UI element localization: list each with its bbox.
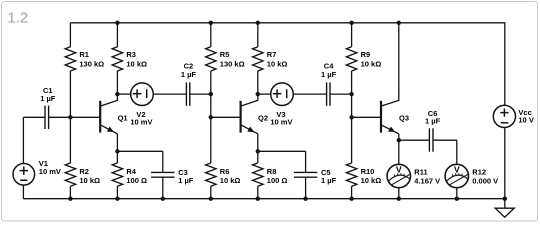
junction R11 bottom rail bbox=[397, 197, 401, 201]
capacitor C1 bbox=[44, 106, 46, 129]
junction R7 top rail bbox=[256, 21, 260, 25]
junction R4 bottom rail bbox=[115, 197, 119, 201]
wire base of Q1 bbox=[70, 116, 100, 118]
resistor R9 bbox=[351, 23, 353, 47]
svg-text:V: V bbox=[454, 164, 460, 174]
wire C1 to base node bbox=[49, 116, 71, 118]
junction coupling node Q3 base column bbox=[349, 92, 353, 96]
junction collector node Q1 bbox=[115, 92, 119, 96]
svg-text:10 mV: 10 mV bbox=[39, 167, 61, 176]
svg-text:1 µF: 1 µF bbox=[321, 176, 337, 185]
junction C5 bottom rail bbox=[303, 197, 307, 201]
junction base node Q1 bbox=[68, 115, 72, 119]
svg-text:1 µF: 1 µF bbox=[178, 176, 194, 185]
wire emitter drop Q1 bbox=[116, 134, 118, 152]
junction R12 bottom rail bbox=[455, 197, 459, 201]
wire emitter drop Q3 bbox=[398, 134, 400, 140]
resistor R6 bbox=[210, 117, 212, 163]
wire Vcc to bottom rail bbox=[504, 128, 506, 199]
svg-text:0.000 V: 0.000 V bbox=[472, 176, 498, 185]
svg-text:1 µF: 1 µF bbox=[321, 70, 337, 79]
junction emitter node Q1 bbox=[115, 149, 119, 153]
junction R2 bottom rail bbox=[68, 197, 72, 201]
svg-text:1 µF: 1 µF bbox=[181, 70, 197, 79]
capacitor C6 bbox=[428, 128, 430, 151]
junction R5 top rail bbox=[209, 21, 213, 25]
junction base node Q3 bbox=[349, 115, 353, 119]
svg-text:R4: R4 bbox=[126, 167, 136, 176]
svg-text:R11: R11 bbox=[414, 167, 427, 176]
wire C3 to bottom rail bbox=[162, 177, 164, 199]
svg-text:R8: R8 bbox=[267, 167, 277, 176]
svg-text:10 mV: 10 mV bbox=[270, 118, 292, 127]
svg-text:R10: R10 bbox=[361, 167, 375, 176]
junction coupling node Q2 base column bbox=[209, 92, 213, 96]
svg-text:10 kΩ: 10 kΩ bbox=[126, 60, 147, 69]
resistor R10 bbox=[351, 117, 353, 163]
source V2 bbox=[131, 83, 154, 106]
junction emitter node Q2 bbox=[256, 149, 260, 153]
svg-text:130 kΩ: 130 kΩ bbox=[220, 60, 245, 69]
wire collector to probe V2 bbox=[117, 93, 130, 95]
junction C3 bottom rail bbox=[161, 197, 165, 201]
junction base node Q2 bbox=[209, 115, 213, 119]
wire C4 to next stage bbox=[330, 93, 351, 95]
svg-text:1 µF: 1 µF bbox=[40, 94, 56, 103]
wire base of Q3 bbox=[352, 116, 381, 118]
svg-text:R9: R9 bbox=[361, 50, 371, 59]
svg-text:10 mV: 10 mV bbox=[130, 118, 152, 127]
wire R11 meter to bottom rail bbox=[398, 188, 400, 199]
resistor R5 bbox=[210, 23, 212, 47]
junction emitter node Q3 bbox=[397, 138, 401, 142]
svg-text:R2: R2 bbox=[79, 167, 89, 176]
svg-text:Q3: Q3 bbox=[399, 113, 409, 122]
svg-text:Q2: Q2 bbox=[258, 113, 268, 122]
resistor R3 bbox=[116, 23, 118, 47]
transistor Q1 bbox=[99, 101, 101, 133]
resistor R4 bbox=[116, 151, 118, 163]
junction R9 top rail bbox=[349, 21, 353, 25]
wire input column V1 to C1 bbox=[22, 117, 24, 163]
junction collector node Q2 bbox=[256, 92, 260, 96]
wire probe to C4 bbox=[293, 93, 326, 95]
source V1 bbox=[13, 164, 35, 186]
junction R8 bottom rail bbox=[256, 197, 260, 201]
resistor R1 bbox=[69, 23, 71, 47]
wire C5 to bottom rail bbox=[305, 177, 307, 199]
capacitor C3 bbox=[151, 171, 174, 173]
wire emitter drop Q2 bbox=[257, 134, 259, 152]
resistor R7 bbox=[257, 23, 259, 47]
svg-text:10 kΩ: 10 kΩ bbox=[361, 176, 382, 185]
wire Q3 emitter to C6 bbox=[399, 139, 430, 141]
wire emitter to C5 bbox=[258, 150, 306, 152]
resistor R8 bbox=[257, 151, 259, 163]
voltmeter R12 bbox=[445, 164, 468, 187]
svg-text:10 kΩ: 10 kΩ bbox=[79, 176, 100, 185]
junction R3 top rail bbox=[115, 21, 119, 25]
svg-text:10 V: 10 V bbox=[518, 116, 533, 125]
resistor R2 bbox=[69, 117, 71, 163]
junction R10 bottom rail bbox=[349, 197, 353, 201]
svg-text:1 µF: 1 µF bbox=[425, 117, 441, 126]
wire probe to C2 bbox=[153, 93, 186, 95]
svg-text:Q1: Q1 bbox=[118, 113, 128, 122]
svg-text:V: V bbox=[396, 164, 402, 174]
capacitor C5 bbox=[294, 171, 317, 173]
source Vcc bbox=[493, 105, 515, 127]
junction Q3 collector top rail bbox=[397, 21, 401, 25]
svg-text:100 Ω: 100 Ω bbox=[267, 176, 288, 185]
wire R12 meter to bottom rail bbox=[456, 188, 458, 199]
svg-text:10 kΩ: 10 kΩ bbox=[220, 176, 241, 185]
svg-text:R7: R7 bbox=[267, 50, 277, 59]
junction R6 bottom rail bbox=[209, 197, 213, 201]
junction Vcc bottom rail bbox=[503, 197, 507, 201]
source V3 bbox=[271, 83, 294, 106]
wire collector to probe V3 bbox=[258, 93, 271, 95]
wire Vcc drop from top rail bbox=[504, 22, 506, 105]
wire base of Q2 bbox=[211, 116, 241, 118]
svg-text:1.2: 1.2 bbox=[7, 10, 28, 27]
wire C6 to R12 meter bbox=[433, 139, 457, 141]
wire C2 to next stage bbox=[190, 93, 211, 95]
svg-text:R3: R3 bbox=[126, 50, 136, 59]
svg-text:R1: R1 bbox=[79, 50, 89, 59]
wire Q3 collector to top rail bbox=[398, 23, 400, 95]
transistor Q2 bbox=[240, 101, 242, 133]
capacitor C2 bbox=[185, 82, 187, 105]
svg-text:130 kΩ: 130 kΩ bbox=[79, 60, 104, 69]
svg-text:R12: R12 bbox=[472, 167, 486, 176]
svg-text:10 kΩ: 10 kΩ bbox=[267, 60, 288, 69]
transistor Q3 bbox=[380, 101, 382, 133]
wire bottom rail bbox=[23, 198, 504, 200]
ground bbox=[504, 199, 506, 209]
capacitor C4 bbox=[326, 82, 328, 105]
wire emitter to C3 bbox=[117, 150, 162, 152]
wire emitter node to R11 meter bbox=[398, 140, 400, 164]
svg-text:100 Ω: 100 Ω bbox=[126, 176, 147, 185]
svg-text:10 kΩ: 10 kΩ bbox=[361, 60, 382, 69]
svg-text:R5: R5 bbox=[220, 50, 230, 59]
svg-text:R6: R6 bbox=[220, 167, 230, 176]
svg-text:4.167 V: 4.167 V bbox=[414, 176, 440, 185]
wire top rail bbox=[70, 22, 504, 24]
voltmeter R11 bbox=[387, 164, 410, 187]
